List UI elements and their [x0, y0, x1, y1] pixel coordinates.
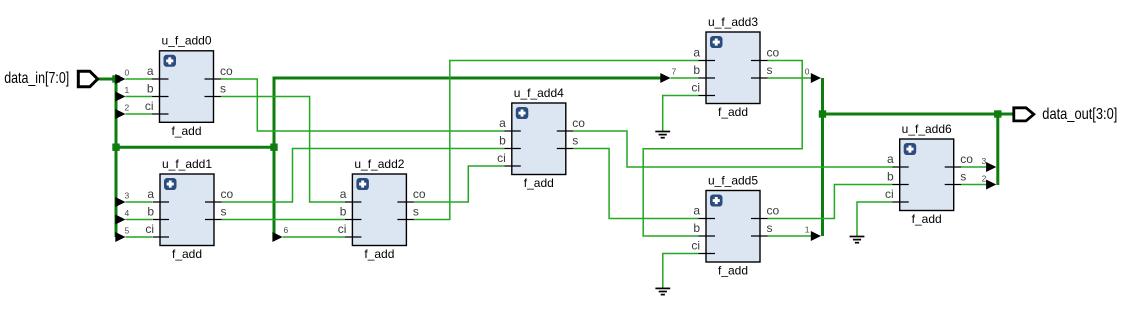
svg-text:co: co	[221, 187, 234, 201]
svg-text:0: 0	[125, 68, 130, 78]
svg-text:a: a	[693, 204, 700, 218]
svg-text:ci: ci	[338, 222, 347, 236]
svg-text:0: 0	[805, 67, 810, 77]
svg-text:s: s	[413, 205, 419, 219]
svg-text:2: 2	[982, 174, 987, 184]
svg-text:f_add: f_add	[912, 212, 942, 226]
svg-text:3: 3	[125, 190, 130, 200]
svg-text:f_add: f_add	[172, 247, 202, 261]
svg-text:s: s	[767, 221, 773, 235]
svg-text:7: 7	[672, 67, 677, 77]
svg-text:u_f_add5: u_f_add5	[708, 173, 758, 187]
svg-text:b: b	[693, 221, 700, 235]
svg-text:u_f_add4: u_f_add4	[514, 86, 564, 100]
svg-text:f_add: f_add	[524, 176, 554, 190]
svg-text:f_add: f_add	[718, 264, 748, 278]
svg-text:b: b	[147, 205, 154, 219]
svg-text:2: 2	[125, 102, 130, 112]
svg-text:co: co	[767, 204, 780, 218]
svg-text:data_out[3:0]: data_out[3:0]	[1042, 106, 1117, 123]
svg-text:co: co	[413, 187, 426, 201]
svg-text:s: s	[572, 134, 578, 148]
svg-text:b: b	[147, 82, 154, 96]
svg-text:u_f_add6: u_f_add6	[902, 122, 952, 136]
svg-text:co: co	[572, 116, 585, 130]
svg-text:s: s	[221, 205, 227, 219]
svg-text:u_f_add0: u_f_add0	[161, 34, 211, 48]
svg-text:a: a	[499, 116, 506, 130]
svg-text:a: a	[340, 187, 347, 201]
svg-text:co: co	[220, 64, 233, 78]
svg-text:s: s	[767, 63, 773, 77]
svg-text:ci: ci	[691, 239, 700, 253]
svg-text:ci: ci	[497, 151, 506, 165]
svg-text:ci: ci	[145, 99, 154, 113]
svg-text:u_f_add1: u_f_add1	[162, 157, 212, 171]
svg-text:a: a	[887, 152, 894, 166]
svg-text:f_add: f_add	[171, 124, 201, 138]
svg-text:a: a	[693, 46, 700, 60]
svg-text:f_add: f_add	[364, 247, 394, 261]
svg-text:a: a	[147, 187, 154, 201]
svg-text:data_in[7:0]: data_in[7:0]	[4, 70, 69, 87]
svg-text:b: b	[340, 205, 347, 219]
svg-text:f_add: f_add	[718, 105, 748, 119]
svg-text:b: b	[499, 134, 506, 148]
svg-text:6: 6	[284, 225, 289, 235]
svg-text:s: s	[220, 82, 226, 96]
svg-text:4: 4	[125, 208, 130, 218]
svg-text:ci: ci	[885, 187, 894, 201]
svg-text:5: 5	[125, 225, 130, 235]
svg-text:1: 1	[805, 225, 810, 235]
svg-text:s: s	[960, 170, 966, 184]
svg-text:ci: ci	[145, 222, 154, 236]
svg-text:b: b	[693, 63, 700, 77]
svg-text:ci: ci	[691, 81, 700, 95]
svg-text:b: b	[887, 170, 894, 184]
svg-text:a: a	[147, 64, 154, 78]
svg-text:1: 1	[125, 85, 130, 95]
svg-text:u_f_add3: u_f_add3	[708, 15, 758, 29]
svg-text:3: 3	[981, 156, 986, 166]
svg-text:u_f_add2: u_f_add2	[354, 157, 404, 171]
svg-text:co: co	[767, 46, 780, 60]
svg-text:co: co	[960, 152, 973, 166]
